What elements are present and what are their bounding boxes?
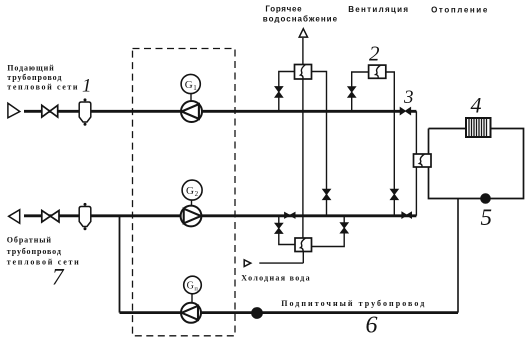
label G1 bbox=[181, 74, 200, 93]
svg-text:7: 7 bbox=[52, 265, 65, 290]
wire DHW regulator right drop to return bbox=[312, 72, 327, 216]
pump G2 bbox=[181, 206, 202, 227]
wire heating loop bbox=[429, 129, 524, 199]
valve V4 vent return riser bbox=[391, 189, 399, 199]
wire DHW regulator top to arrow bbox=[302, 38, 304, 65]
node outlet arrow return bbox=[9, 210, 20, 224]
svg-text:4: 4 bbox=[471, 93, 482, 118]
wire vent supply riser bbox=[352, 72, 370, 111]
wire heating riser through regulator bbox=[415, 111, 417, 216]
svg-text:п: п bbox=[194, 285, 198, 292]
label Gp circle bbox=[184, 276, 202, 294]
wire G1 stub bbox=[190, 94, 192, 101]
pump 5 circulation bbox=[481, 194, 491, 204]
svg-text:1: 1 bbox=[82, 76, 92, 97]
wire exchanger right branch bbox=[312, 216, 345, 247]
svg-text:G: G bbox=[185, 79, 193, 91]
svg-text:6: 6 bbox=[366, 313, 378, 339]
wire Gp stub bbox=[191, 294, 193, 303]
svg-text:3: 3 bbox=[403, 87, 414, 108]
svg-text:1: 1 bbox=[193, 84, 197, 92]
svg-text:тепловой сети: тепловой сети bbox=[7, 82, 79, 91]
node arrow cold water in bbox=[244, 260, 251, 267]
regulator DHW square S1 bbox=[295, 65, 312, 80]
wire DHW regulator bottom down to exchanger bbox=[302, 79, 304, 238]
svg-text:Обратный: Обратный bbox=[7, 236, 52, 245]
wire make-up branch from return bbox=[119, 216, 121, 313]
wire supply collector bbox=[24, 110, 416, 113]
svg-text:Отопление: Отопление bbox=[431, 6, 489, 15]
wire DHW supply riser bbox=[279, 72, 295, 112]
valve V1 DHW supply riser bbox=[275, 87, 283, 98]
valve return right bbox=[402, 212, 412, 218]
valve V3 DHW return riser bbox=[323, 189, 331, 199]
valve V6 exchanger left branch bbox=[275, 223, 283, 233]
label G2 circle bbox=[182, 180, 202, 200]
wire return collector bbox=[24, 214, 416, 217]
wire cold water inlet bbox=[259, 252, 303, 264]
valve V2 vent supply riser bbox=[348, 87, 356, 97]
boundary dashed box bbox=[133, 49, 236, 336]
svg-text:Вентиляция: Вентиляция bbox=[348, 5, 409, 14]
wire vent regulator right drop to return bbox=[385, 72, 394, 216]
wire make-up line bbox=[120, 311, 459, 314]
svg-text:2: 2 bbox=[369, 42, 380, 66]
regulator vent square S2 bbox=[369, 65, 386, 78]
svg-text:трубопровод: трубопровод bbox=[7, 73, 62, 82]
valve return outlet bbox=[42, 211, 59, 223]
svg-text:Подающий: Подающий bbox=[7, 64, 54, 73]
wire G2 stub bbox=[191, 200, 193, 206]
regulator exchanger square S4 bbox=[295, 238, 312, 252]
pump G1 bbox=[181, 101, 202, 122]
valve V7 exchanger right branch bbox=[340, 223, 348, 233]
wire make-up riser to loop bbox=[457, 199, 459, 313]
node inlet arrow supply bbox=[8, 103, 20, 118]
regulator heating square S3 bbox=[414, 154, 432, 167]
valve 3 heating supply bbox=[400, 108, 410, 115]
valve supply inlet bbox=[42, 105, 58, 117]
svg-text:G: G bbox=[187, 281, 194, 292]
valve return mid bbox=[285, 213, 295, 219]
svg-text:Подпиточный трубопровод: Подпиточный трубопровод bbox=[281, 299, 426, 308]
filter return strainer bbox=[79, 203, 91, 230]
svg-text:2: 2 bbox=[195, 190, 199, 198]
node arrow hot water out bbox=[299, 29, 307, 37]
radiator 4 bbox=[466, 118, 491, 137]
svg-text:тепловой сети: тепловой сети bbox=[7, 257, 81, 266]
svg-text:Горячее: Горячее bbox=[265, 5, 302, 14]
pump Gp make-up bbox=[181, 303, 201, 323]
svg-text:трубопровод: трубопровод bbox=[7, 247, 62, 256]
svg-text:водоснабжение: водоснабжение bbox=[263, 15, 338, 24]
svg-text:G: G bbox=[186, 185, 194, 197]
svg-text:5: 5 bbox=[481, 205, 493, 230]
node make-up dot pump bbox=[252, 308, 263, 319]
filter supply strainer bbox=[79, 98, 91, 125]
svg-text:Холодная вода: Холодная вода bbox=[241, 274, 311, 283]
wire exchanger left branch bbox=[279, 216, 295, 245]
